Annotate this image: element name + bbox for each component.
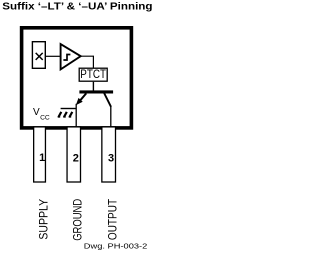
svg-text:CC: CC bbox=[40, 115, 50, 122]
svg-text:GROUND: GROUND bbox=[70, 199, 84, 241]
svg-text:V: V bbox=[33, 107, 40, 118]
svg-text:PTCT: PTCT bbox=[80, 67, 106, 81]
svg-text:Suffix ‘–LT’ & ‘–UA’ Pinning: Suffix ‘–LT’ & ‘–UA’ Pinning bbox=[2, 2, 152, 13]
svg-text:3: 3 bbox=[108, 152, 114, 164]
svg-text:SUPPLY: SUPPLY bbox=[36, 199, 50, 240]
svg-text:OUTPUT: OUTPUT bbox=[105, 198, 119, 240]
svg-text:Dwg. PH-003-2: Dwg. PH-003-2 bbox=[84, 244, 148, 251]
svg-text:2: 2 bbox=[73, 152, 79, 164]
svg-text:1: 1 bbox=[39, 152, 45, 164]
